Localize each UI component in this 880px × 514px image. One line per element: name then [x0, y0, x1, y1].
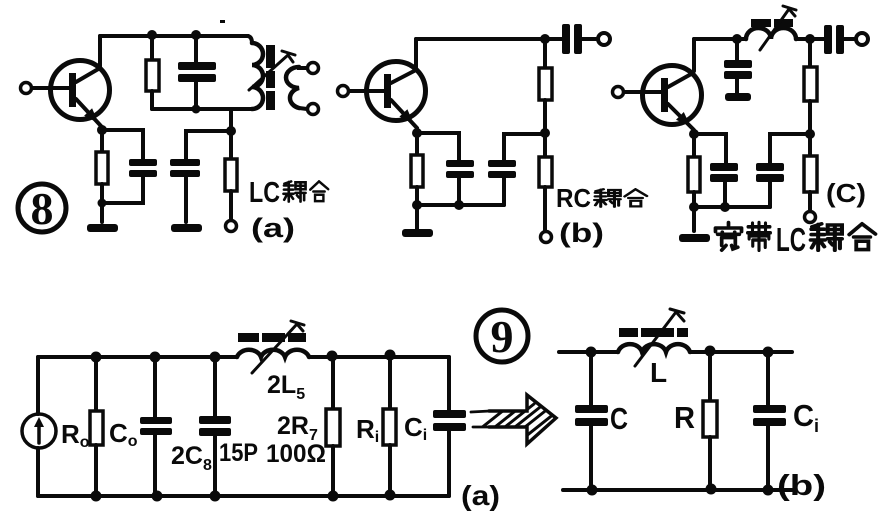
transformer T1 primary	[248, 36, 263, 109]
terminal OUT2(a)	[308, 104, 319, 115]
hanzi KUAN of wideband (c)	[715, 223, 741, 251]
node ground junction (c)	[689, 202, 699, 212]
wire collector riser Q2	[414, 39, 418, 69]
equivalence block arrow	[456, 395, 584, 456]
hanzi DAI of wideband (c)	[748, 223, 771, 251]
transistor Q1	[51, 61, 110, 127]
terminal OUT2(c)	[805, 212, 816, 223]
node collector rail dot 1	[147, 30, 157, 40]
svg-text:LC: LC	[776, 221, 806, 258]
wire bottom rail (c)	[694, 205, 770, 209]
capacitor C3c	[694, 134, 738, 207]
node Ri top	[385, 350, 396, 361]
wire bottom rail (b)	[417, 203, 504, 207]
resistor R3a	[225, 131, 237, 220]
wire base lead Q1	[32, 86, 70, 90]
ground (a) middle	[171, 224, 202, 232]
wire bottom rail fig9b	[563, 488, 792, 492]
wire top rail (a)	[100, 34, 248, 38]
node Ci top	[763, 347, 774, 358]
svg-text:R: R	[674, 400, 695, 435]
ground (c)	[679, 234, 710, 242]
svg-text:RC: RC	[556, 183, 591, 213]
svg-text:100Ω: 100Ω	[266, 440, 326, 468]
resistor R3c emitter	[688, 134, 700, 207]
capacitor C fig9b	[575, 352, 608, 490]
hanzi OU of RC coupling (b)	[595, 189, 621, 207]
terminal IN(b)	[338, 86, 349, 97]
node R0 bottom	[91, 491, 102, 502]
terminal IN(c)	[613, 87, 624, 98]
inductor L1c tuning arrow	[760, 6, 796, 50]
svg-text:LC: LC	[249, 177, 280, 209]
svg-text:(C): (C)	[826, 178, 866, 208]
wire secondary bottom	[299, 108, 307, 109]
node emitter (b)	[412, 128, 422, 138]
hanzi OU of LC coupling (a)	[283, 181, 305, 201]
node Ri bottom	[385, 490, 396, 501]
node mid (b)	[540, 128, 550, 138]
wire secondary top	[299, 67, 307, 68]
wire ground stub (b)	[415, 205, 419, 229]
transformer T1 core	[266, 45, 275, 110]
node 2C8 top	[210, 352, 221, 363]
inductor L core	[619, 328, 688, 337]
node collector rail dot 2	[191, 30, 201, 40]
capacitor C4c	[756, 134, 810, 207]
figure number 8 badge	[18, 184, 66, 232]
svg-text:i: i	[814, 416, 819, 436]
transformer T1 secondary	[286, 67, 299, 108]
node Ci bottom	[763, 485, 774, 496]
node ground junction (b)	[412, 200, 422, 210]
node top rail (c) left	[732, 34, 742, 44]
wire top rail (c)	[694, 37, 746, 41]
ground (b)	[402, 229, 433, 237]
node sub-rail dot	[192, 105, 201, 114]
resistor R3b emitter	[411, 133, 423, 205]
terminal IN(a)	[21, 83, 32, 94]
svg-text:(a): (a)	[251, 213, 295, 243]
capacitor Ci fig9b	[753, 352, 786, 490]
capacitor C3a	[170, 131, 231, 222]
wire base lead Q2	[349, 89, 385, 93]
node C0 top	[150, 352, 161, 363]
resistor R0	[90, 357, 103, 496]
node emitter (a)	[97, 125, 107, 135]
wire top rail fig9a	[38, 355, 237, 359]
hanzi HE of wideband (c)	[849, 224, 875, 250]
inductor L tuning arrow	[635, 309, 684, 366]
resistor R1a	[146, 36, 159, 109]
node top rail (c) right	[805, 34, 815, 44]
node bottom rail (b)	[454, 200, 464, 210]
capacitor 2C8	[199, 357, 231, 496]
resistor R fig9b	[703, 352, 717, 489]
wire left edge fig9a	[36, 357, 40, 414]
node emitter resistor bottom	[98, 199, 107, 208]
capacitor C2b	[417, 133, 474, 205]
capacitor C1a	[178, 36, 216, 109]
wire ground stub (c)	[692, 207, 696, 231]
svg-text:(a): (a)	[461, 480, 500, 511]
resistor R1c	[804, 39, 817, 134]
terminal OUT(c)	[856, 33, 868, 45]
node mid (c)	[805, 129, 815, 139]
resistor R1b	[539, 39, 552, 133]
inductor L fig9b	[618, 344, 690, 352]
node top rail (b)	[540, 34, 550, 44]
capacitor C1b coupling	[545, 24, 598, 54]
inductor 2L5	[237, 350, 309, 357]
node output branch (a)	[226, 126, 236, 136]
node bottom rail (c)	[720, 202, 730, 212]
wire sub-rail (a)	[152, 107, 252, 111]
capacitor C0	[140, 357, 172, 496]
wire transformer bottom riser	[229, 109, 233, 131]
noise dash top middle	[220, 20, 225, 23]
current source I0	[22, 414, 56, 448]
resistor R2a emitter	[96, 130, 108, 222]
capacitor C2c coupling	[810, 25, 856, 54]
node 2R7 top	[327, 351, 338, 362]
node 2C8 bottom	[210, 491, 221, 502]
terminal OUT2(b)	[541, 232, 552, 243]
svg-text:8: 8	[31, 183, 54, 234]
transistor Q2	[367, 62, 426, 129]
hanzi HE of LC coupling (a)	[310, 181, 328, 201]
wire top rail (b)	[416, 37, 545, 41]
inductor L1c	[746, 28, 796, 39]
node R bottom	[706, 484, 717, 495]
svg-text:L: L	[650, 357, 667, 388]
transformer T1 tuning arrow	[249, 51, 295, 90]
capacitor C1c	[724, 39, 752, 101]
wire bottom rail fig9a	[38, 494, 449, 498]
wire top rail fig9b	[559, 350, 618, 354]
wire collector riser Q3	[692, 39, 696, 71]
node C bottom	[587, 485, 598, 496]
inductor 2L5 core	[238, 333, 306, 342]
svg-text:9: 9	[491, 311, 514, 362]
inductor 2L5 tuning arrow	[252, 321, 304, 373]
svg-text:(b): (b)	[777, 470, 826, 502]
resistor R2b	[539, 133, 552, 231]
svg-text:15P: 15P	[219, 439, 258, 467]
svg-text:C: C	[610, 401, 628, 436]
hanzi OU of wideband (c)	[811, 224, 842, 250]
wire base lead Q3	[624, 90, 661, 94]
node 2R7 bottom	[328, 491, 339, 502]
resistor R2c	[804, 134, 817, 211]
node emitter (c)	[689, 129, 699, 139]
wire collector riser Q1	[98, 36, 102, 68]
terminal OUT1(a)	[308, 63, 319, 74]
inductor L1c core	[751, 19, 793, 27]
resistor 2R7	[326, 357, 340, 496]
capacitor C3b	[488, 134, 545, 205]
svg-text:(b): (b)	[559, 218, 604, 248]
figure number 9 badge	[476, 310, 528, 362]
capacitor C2a bypass	[102, 130, 157, 203]
ground (a) left	[87, 224, 118, 232]
wire rail to node (c)	[796, 37, 810, 41]
node C top	[586, 347, 597, 358]
hanzi HE of RC coupling (b)	[625, 189, 647, 206]
transistor Q3	[643, 66, 702, 131]
terminal OUT3(a)	[226, 221, 237, 232]
node R0 top	[91, 352, 102, 363]
terminal OUT(b)	[598, 33, 610, 45]
resistor Ri	[383, 356, 396, 495]
svg-text:C: C	[793, 398, 814, 433]
node C0 bottom	[152, 491, 163, 502]
node R top	[705, 346, 716, 357]
capacitor Ci fig9a	[433, 357, 466, 496]
